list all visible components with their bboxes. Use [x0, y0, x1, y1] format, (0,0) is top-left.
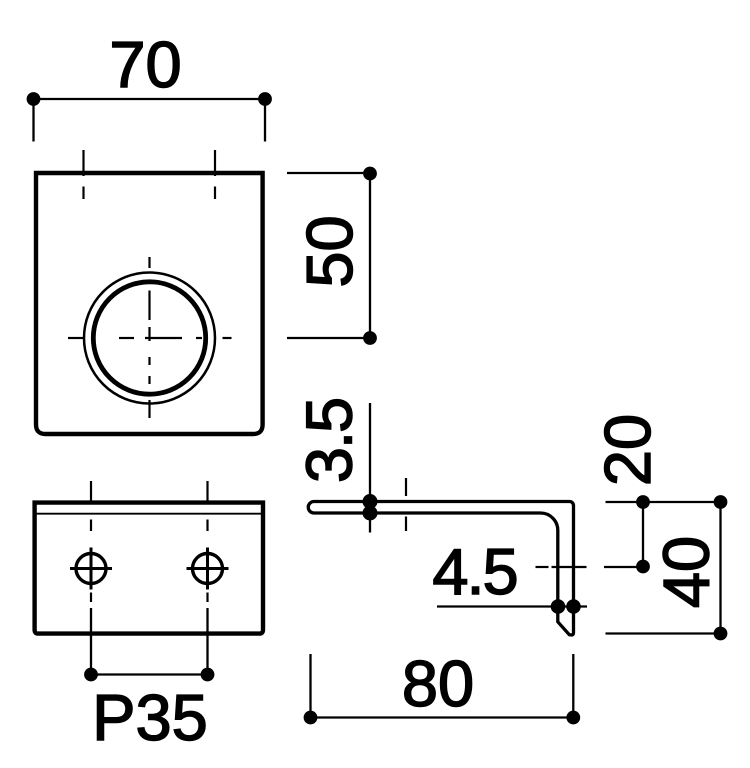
dimension 4.5 right dot: [566, 599, 581, 614]
dimension 4.5 left dot: [551, 599, 566, 614]
svg-text:4.5: 4.5: [432, 535, 516, 608]
dimension 80 right extension line: [572, 654, 574, 718]
dimension 4.5 line: [437, 605, 587, 607]
svg-text:P35: P35: [92, 681, 208, 754]
dimension P35 right extension line: [206, 608, 208, 675]
svg-text:40: 40: [650, 536, 723, 608]
dimension 80 right dot: [566, 711, 580, 725]
dimension 20/40 top extension line: [606, 501, 723, 503]
svg-text:70: 70: [109, 28, 181, 101]
hole circle inner ring: [93, 282, 205, 394]
dimension P35 line: [91, 673, 208, 675]
right hole crosshair: [187, 548, 229, 590]
dimension 20 line: [642, 502, 644, 567]
dimension P35 left dot: [84, 668, 98, 682]
side view vertical-leg hole center line: [536, 566, 644, 568]
svg-text:50: 50: [293, 215, 366, 287]
left hole-axis tick on front view top edge: [82, 150, 84, 199]
dimension 70 left extension line: [32, 99, 34, 142]
circle horizontal center line: [68, 337, 232, 339]
dimension 50 top extension line: [287, 172, 370, 174]
side view hole-axis tick on horizontal leg: [405, 478, 407, 531]
dimension 50 top dot: [363, 167, 377, 181]
dimension 40 bottom dot: [714, 627, 728, 641]
side view L-profile outline: [308, 502, 573, 636]
dimension 70 left dot: [27, 92, 41, 106]
dimension 40 bottom extension line: [606, 632, 723, 634]
dimension 50 bottom extension line: [287, 337, 370, 339]
dimension 70 line: [34, 98, 266, 100]
svg-text:20: 20: [591, 414, 664, 486]
left hole center line: [90, 481, 92, 602]
hole circle outer ring: [84, 273, 215, 404]
left hole circle: [76, 554, 106, 584]
dimension 80 line: [311, 716, 574, 718]
dimension 70 right dot: [258, 92, 272, 106]
dimension 50 bottom dot: [363, 331, 377, 345]
svg-text:3.5: 3.5: [293, 399, 366, 483]
dimension 3.5 lower dot: [363, 506, 378, 521]
top view outline (plate): [35, 503, 263, 634]
right hole-axis tick on front view top edge: [214, 150, 216, 199]
dimension 50 line: [369, 173, 371, 338]
left hole crosshair: [70, 548, 112, 590]
dimension 3.5 line: [369, 403, 371, 533]
dimension 70 right extension line: [264, 99, 266, 142]
dimension 20 bottom dot: [636, 560, 650, 574]
dimension P35 right dot: [201, 668, 215, 682]
right hole circle: [193, 554, 223, 584]
front view outline (bent plate, rounded bottom corners): [36, 173, 263, 434]
top view fold line: [37, 513, 261, 515]
dimension 80 left dot: [304, 711, 318, 725]
right hole center line: [206, 481, 208, 602]
dimension 80 left extension line: [309, 654, 311, 718]
dimension 40 top dot: [714, 495, 728, 509]
svg-text:80: 80: [402, 647, 474, 720]
dimension 40 line: [719, 502, 721, 634]
dimension P35 left extension line: [90, 608, 92, 675]
circle vertical center line: [148, 257, 150, 418]
dimension 20 top dot: [636, 495, 650, 509]
dimension 3.5 upper dot: [363, 494, 378, 509]
